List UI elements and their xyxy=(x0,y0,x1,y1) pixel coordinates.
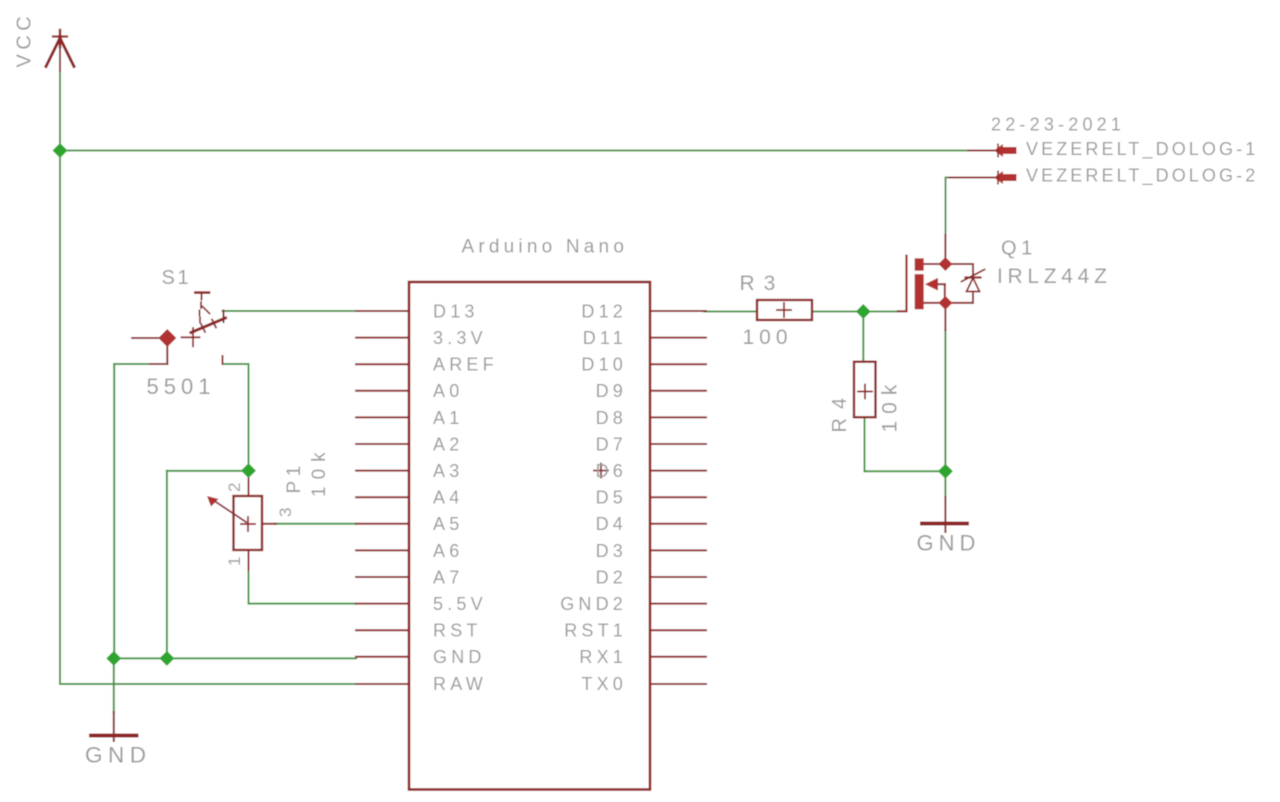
svg-text:D13: D13 xyxy=(433,301,479,321)
svg-text:A7: A7 xyxy=(433,567,463,587)
svg-text:D8: D8 xyxy=(596,408,627,428)
svg-text:22-23-2021: 22-23-2021 xyxy=(991,115,1125,135)
svg-text:RX1: RX1 xyxy=(579,647,627,667)
svg-text:P1: P1 xyxy=(284,461,305,493)
svg-text:R3: R3 xyxy=(740,272,785,295)
svg-text:VEZERELT_DOLOG-1: VEZERELT_DOLOG-1 xyxy=(1026,139,1258,160)
svg-text:Arduino Nano: Arduino Nano xyxy=(462,237,629,258)
svg-text:D5: D5 xyxy=(596,488,627,508)
svg-text:A0: A0 xyxy=(433,381,463,401)
svg-text:D9: D9 xyxy=(596,381,627,401)
svg-text:2: 2 xyxy=(225,483,244,492)
svg-text:RST1: RST1 xyxy=(564,621,627,641)
svg-text:VCC: VCC xyxy=(14,12,36,68)
svg-text:100: 100 xyxy=(743,326,793,349)
svg-text:AREF: AREF xyxy=(433,355,498,375)
svg-text:GND: GND xyxy=(85,743,152,768)
svg-text:TX0: TX0 xyxy=(581,674,627,694)
svg-text:A1: A1 xyxy=(433,408,463,428)
svg-text:RST: RST xyxy=(433,621,482,641)
svg-text:10k: 10k xyxy=(309,445,330,497)
svg-text:D11: D11 xyxy=(583,328,627,348)
svg-text:3.3V: 3.3V xyxy=(433,328,487,348)
svg-text:S1: S1 xyxy=(162,267,192,289)
svg-text:A3: A3 xyxy=(433,461,463,481)
svg-text:D2: D2 xyxy=(596,567,627,587)
svg-text:5.5V: 5.5V xyxy=(433,594,487,614)
svg-text:GND: GND xyxy=(433,647,486,667)
svg-text:D10: D10 xyxy=(581,355,627,375)
svg-text:D3: D3 xyxy=(596,541,627,561)
svg-text:D6: D6 xyxy=(596,461,627,481)
svg-text:D7: D7 xyxy=(596,434,627,454)
svg-text:A2: A2 xyxy=(433,434,463,454)
svg-text:A5: A5 xyxy=(433,514,463,534)
svg-text:5501: 5501 xyxy=(147,374,216,399)
svg-text:3: 3 xyxy=(276,508,295,517)
svg-text:10k: 10k xyxy=(879,378,902,433)
svg-text:GND2: GND2 xyxy=(560,594,627,614)
svg-text:Q1: Q1 xyxy=(1001,238,1037,260)
svg-text:GND: GND xyxy=(917,531,981,556)
svg-text:1: 1 xyxy=(225,557,244,566)
svg-text:VEZERELT_DOLOG-2: VEZERELT_DOLOG-2 xyxy=(1026,166,1258,187)
svg-text:R4: R4 xyxy=(829,389,851,433)
svg-text:IRLZ44Z: IRLZ44Z xyxy=(997,265,1112,288)
svg-text:A4: A4 xyxy=(433,488,463,508)
svg-text:D4: D4 xyxy=(596,514,627,534)
svg-text:D12: D12 xyxy=(581,301,627,321)
svg-text:RAW: RAW xyxy=(433,674,487,694)
svg-text:A6: A6 xyxy=(433,541,463,561)
